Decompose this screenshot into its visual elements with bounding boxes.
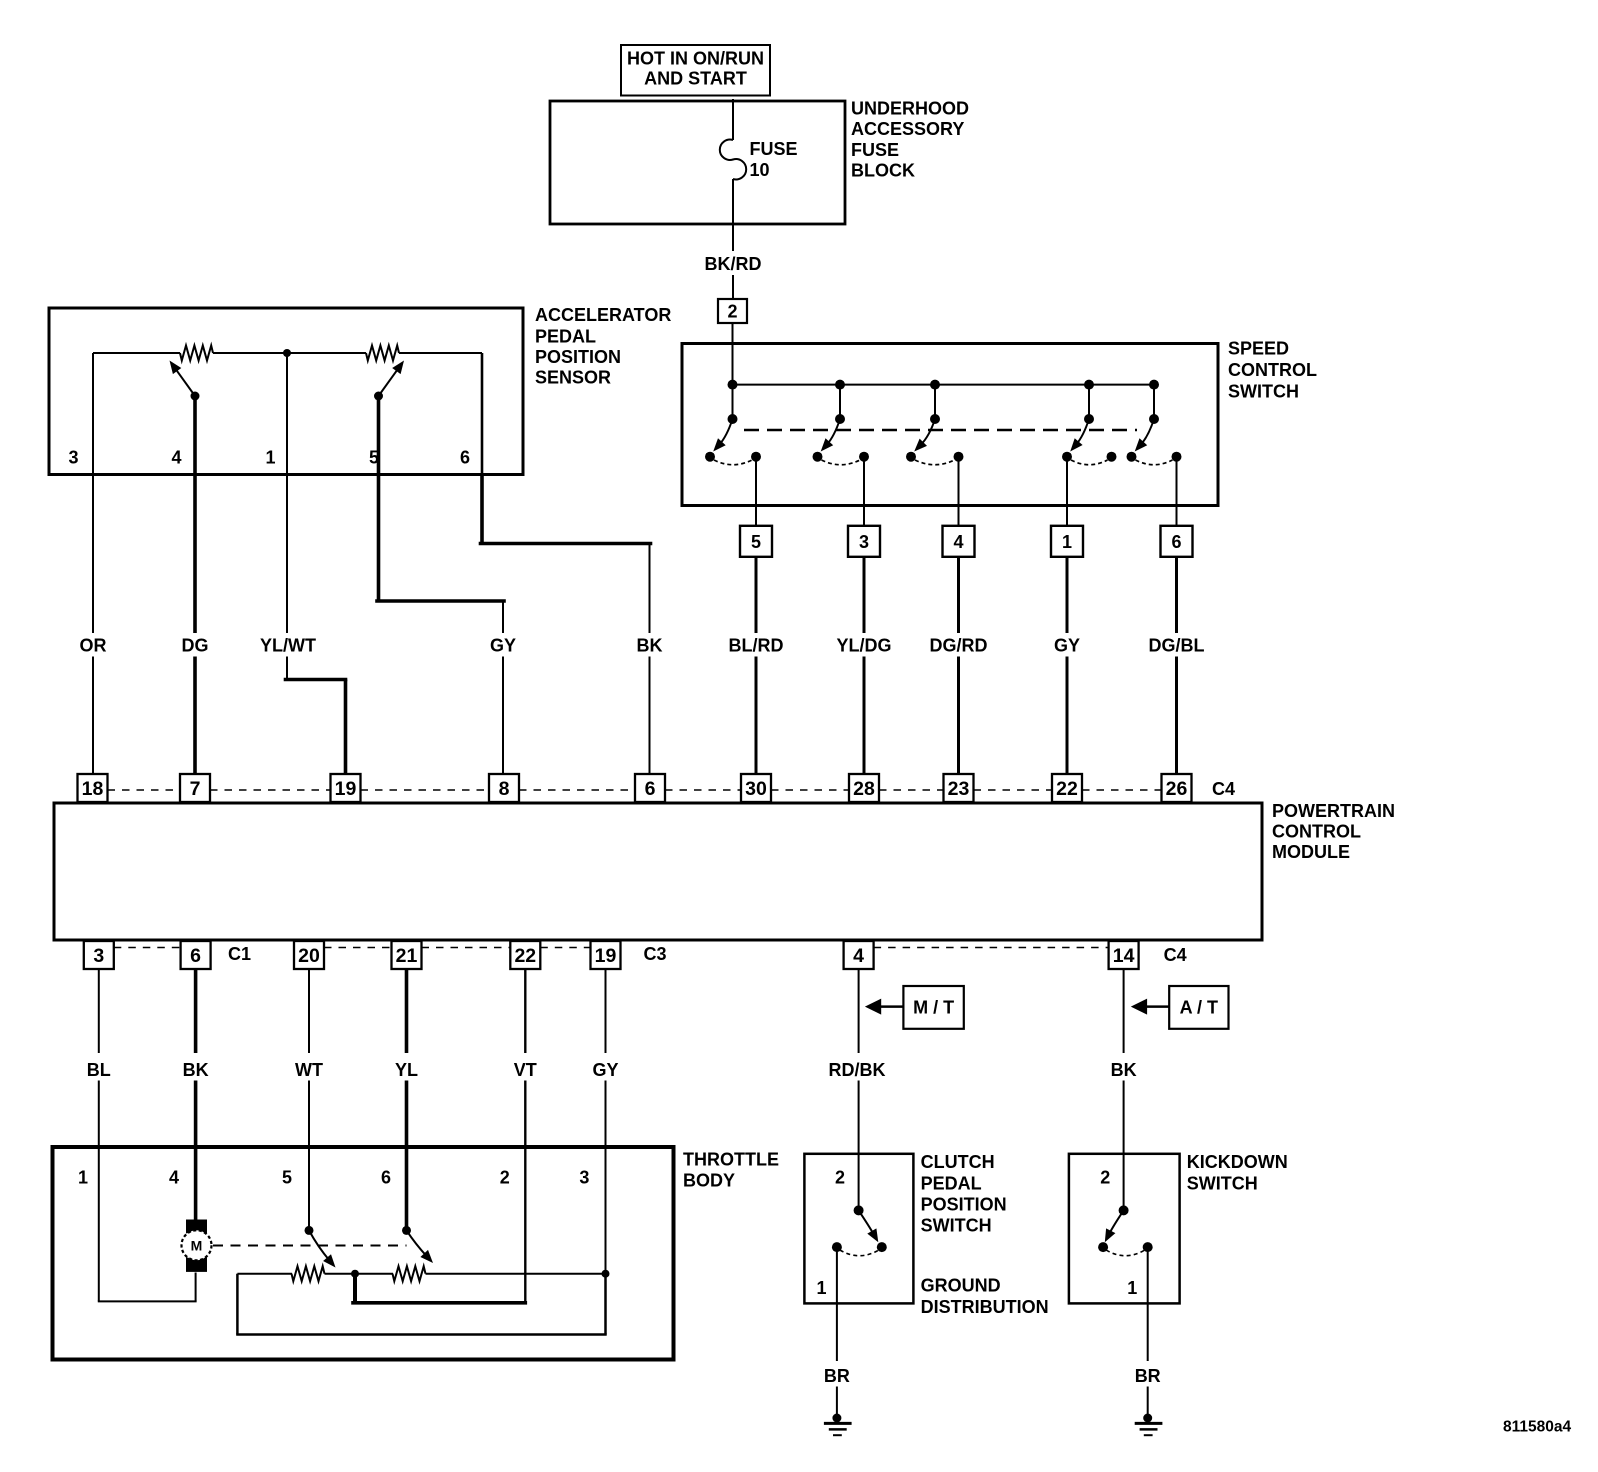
wire return loop: [236, 1274, 239, 1335]
wire sensor pin 3 internal: [92, 353, 94, 475]
connector pin 6 (PCM bottom row): [181, 941, 211, 969]
wire from contact to connector pin 6: [1176, 457, 1178, 526]
svg-text:6: 6: [381, 1168, 391, 1188]
svg-text:C3: C3: [644, 944, 667, 964]
svg-text:BR: BR: [824, 1366, 850, 1386]
svg-text:C1: C1: [228, 944, 251, 964]
switch contact set 5 of speed control switch: [1153, 385, 1155, 419]
svg-text:PEDAL: PEDAL: [535, 327, 596, 347]
svg-text:A / T: A / T: [1180, 997, 1218, 1017]
svg-text:DG/BL: DG/BL: [1149, 636, 1205, 656]
wiper arm W4 (tps2) with arrow: [405, 1147, 409, 1230]
wire GY lower to PCM pin 8: [502, 657, 504, 775]
wire resistor rail left: [237, 1273, 292, 1275]
wire GY upper segment: [1066, 557, 1069, 633]
junction bus dot 5: [1149, 380, 1159, 390]
wire RD/BK upper: [858, 969, 860, 1053]
svg-text:BODY: BODY: [683, 1171, 735, 1191]
wire BL upper: [98, 969, 100, 1053]
svg-text:YL: YL: [395, 1060, 418, 1080]
svg-text:GY: GY: [592, 1060, 618, 1080]
svg-text:5: 5: [751, 532, 761, 552]
connector pin 5 (speed control switch): [740, 526, 772, 557]
svg-text:KICKDOWN: KICKDOWN: [1187, 1152, 1288, 1172]
resistor R1 (sensor track 1): [180, 346, 213, 361]
wire GY2 lower into throttle body: [605, 1081, 607, 1274]
svg-text:C4: C4: [1212, 779, 1235, 799]
svg-text:4: 4: [853, 945, 864, 967]
svg-text:2: 2: [500, 1168, 510, 1188]
wire DG lower to PCM pin 7: [193, 657, 197, 775]
wire BL/RD lower segment to PCM pin 30: [755, 657, 758, 775]
wire VT upper: [524, 969, 526, 1053]
svg-text:OR: OR: [80, 636, 107, 656]
svg-text:UNDERHOOD: UNDERHOOD: [851, 99, 969, 119]
wire BK2 upper: [1123, 969, 1125, 1053]
box accelerator pedal position sensor: [49, 308, 523, 475]
connector pin 7 (PCM C4 top row): [180, 774, 210, 802]
wire BK upper: [194, 969, 198, 1053]
wire motor to pin1 return: [195, 1273, 197, 1302]
connector pin 22 (PCM bottom row): [510, 941, 540, 969]
svg-text:7: 7: [190, 778, 201, 800]
wire OR upper: [92, 475, 94, 634]
wire rail mid: [213, 352, 366, 354]
svg-text:1: 1: [265, 448, 275, 468]
connector pin 4 (speed control switch): [943, 526, 975, 557]
wire pin4 to motor: [194, 1147, 198, 1221]
svg-text:1: 1: [1062, 532, 1072, 552]
wire BK lower into throttle body: [194, 1081, 198, 1148]
wire BR to ground (clutch): [836, 1387, 838, 1419]
wire WT lower into throttle body: [308, 1081, 310, 1148]
svg-text:POSITION: POSITION: [535, 347, 621, 367]
junction node tap VT: [351, 1270, 359, 1278]
wire BK jog from sensor pin 6: [480, 475, 484, 544]
wiper arm W2 with arrow: [374, 392, 383, 401]
switch S2 clutch pedal position: [854, 1205, 864, 1215]
svg-text:3: 3: [859, 532, 869, 552]
svg-text:3: 3: [579, 1168, 589, 1188]
wire from contact to connector pin 3: [863, 457, 865, 526]
junction bus dot 4: [1084, 380, 1094, 390]
svg-text:4: 4: [171, 448, 181, 468]
wire YL lower into throttle body: [405, 1081, 409, 1148]
wire YL/DG lower segment to PCM pin 28: [863, 657, 866, 775]
mechanical linkage dashed line: [744, 429, 1137, 431]
wire BL lower into throttle body: [98, 1081, 100, 1148]
wire DG upper: [193, 475, 197, 634]
resistor R4 (tps track 2): [393, 1266, 426, 1281]
svg-text:VT: VT: [514, 1060, 537, 1080]
svg-text:1: 1: [78, 1168, 88, 1188]
box throttle body: [53, 1147, 674, 1360]
svg-text:M: M: [191, 1237, 203, 1253]
wire from contact to connector pin 5: [755, 457, 757, 526]
svg-text:BL: BL: [87, 1060, 111, 1080]
svg-text:6: 6: [460, 448, 470, 468]
svg-text:BK: BK: [183, 1060, 209, 1080]
box underhood accessory fuse block: [550, 101, 845, 224]
connector pin 1 (speed control switch): [1051, 526, 1083, 557]
svg-text:2: 2: [727, 302, 737, 322]
node HOT IN ON/RUN AND START (power feed box): [621, 45, 770, 96]
resistor R3 (tps track 1): [292, 1266, 325, 1281]
svg-text:SENSOR: SENSOR: [535, 367, 611, 387]
switch S3 kickdown: [1119, 1205, 1129, 1215]
flag M/T (manual transmission): [903, 986, 963, 1029]
connector pin 26 (PCM C4 top row): [1162, 774, 1192, 802]
wire sensor pin 4 internal: [193, 396, 197, 475]
wire YL/WT jog to PCM pin 19: [286, 657, 288, 680]
wire pin1 to motor return: [98, 1147, 100, 1301]
wire BK2 lower to kickdown switch: [1123, 1081, 1125, 1211]
wire from contact to connector pin 4: [958, 457, 960, 526]
svg-text:5: 5: [282, 1168, 292, 1188]
wire from clutch switch to ground: [836, 1247, 838, 1361]
svg-text:DISTRIBUTION: DISTRIBUTION: [921, 1297, 1049, 1317]
svg-text:20: 20: [298, 945, 320, 967]
svg-text:SPEED: SPEED: [1228, 339, 1289, 359]
svg-text:CONTROL: CONTROL: [1272, 822, 1361, 842]
svg-text:SWITCH: SWITCH: [1228, 382, 1299, 402]
svg-text:ACCELERATOR: ACCELERATOR: [535, 305, 671, 325]
svg-text:BK/RD: BK/RD: [705, 254, 762, 274]
svg-text:2: 2: [1100, 1168, 1110, 1188]
wire YL upper: [405, 969, 409, 1053]
svg-text:BLOCK: BLOCK: [851, 161, 915, 181]
svg-text:3: 3: [68, 448, 78, 468]
wire sensor pin 1 internal: [286, 353, 288, 475]
svg-text:WT: WT: [295, 1060, 323, 1080]
wire feed into bus: [732, 345, 734, 385]
box clutch pedal position switch: [804, 1154, 913, 1304]
wire YL/DG upper segment: [863, 557, 866, 633]
svg-text:SWITCH: SWITCH: [921, 1216, 992, 1236]
svg-text:5: 5: [369, 448, 379, 468]
junction bus dot 3: [930, 380, 940, 390]
ground G1: [832, 1414, 841, 1423]
wire OR lower to PCM pin 18: [92, 657, 94, 775]
wire pin2 to speed control switch: [732, 323, 734, 345]
svg-text:22: 22: [514, 945, 536, 967]
svg-text:23: 23: [948, 778, 970, 800]
wire BK/RD from fuse to connector pin 2: [732, 179, 734, 251]
svg-text:4: 4: [169, 1168, 179, 1188]
junction bus dot 1: [728, 380, 738, 390]
svg-text:CLUTCH: CLUTCH: [921, 1152, 995, 1172]
svg-text:19: 19: [595, 945, 617, 967]
svg-text:ACCESSORY: ACCESSORY: [851, 119, 964, 139]
wire BR to ground (kickdown): [1147, 1387, 1149, 1419]
wire DG/BL lower segment to PCM pin 26: [1175, 657, 1178, 775]
wire VT tap jog: [353, 1274, 357, 1303]
switch contact set 1 of speed control switch: [732, 385, 734, 419]
svg-text:AND START: AND START: [644, 69, 747, 89]
svg-text:3: 3: [93, 945, 104, 967]
motor M (throttle actuator): [187, 1220, 207, 1233]
svg-text:1: 1: [816, 1278, 826, 1298]
svg-text:6: 6: [645, 778, 656, 800]
svg-text:22: 22: [1056, 778, 1078, 800]
svg-text:18: 18: [82, 778, 104, 800]
wire GY lower segment to PCM pin 22: [1066, 657, 1069, 775]
svg-text:2: 2: [835, 1168, 845, 1188]
connector pin 22 (PCM C4 top row): [1052, 774, 1082, 802]
box kickdown switch: [1069, 1154, 1180, 1304]
svg-text:M / T: M / T: [913, 997, 954, 1017]
dashed connector row line C4 top: [108, 789, 181, 791]
wire DG/RD upper segment: [957, 557, 960, 633]
svg-text:YL/DG: YL/DG: [836, 636, 891, 656]
junction node pin 3: [602, 1270, 610, 1278]
connector pin 30 (PCM C4 top row): [741, 774, 771, 802]
svg-text:30: 30: [745, 778, 767, 800]
svg-text:BR: BR: [1135, 1366, 1161, 1386]
wire DG/RD lower segment to PCM pin 23: [957, 657, 960, 775]
connector pin 14 (PCM bottom row): [1109, 941, 1139, 969]
wire rail right: [399, 352, 482, 354]
svg-text:THROTTLE: THROTTLE: [683, 1150, 779, 1170]
svg-text:MODULE: MODULE: [1272, 842, 1350, 862]
switch contact set 4 of speed control switch: [1088, 385, 1090, 419]
wire BK lower to PCM pin 6: [649, 657, 651, 775]
wire RD/BK lower to clutch switch: [858, 1081, 860, 1211]
connector pin 19 (PCM C4 top row): [331, 774, 361, 802]
svg-text:PEDAL: PEDAL: [921, 1173, 982, 1193]
svg-text:C4: C4: [1164, 945, 1187, 965]
svg-text:8: 8: [499, 778, 510, 800]
wire sensor pin 6 internal: [481, 353, 484, 475]
svg-text:RD/BK: RD/BK: [829, 1060, 886, 1080]
svg-text:YL/WT: YL/WT: [260, 636, 316, 656]
wire BL/RD upper segment: [755, 557, 758, 633]
svg-text:BK: BK: [637, 636, 663, 656]
mechanical linkage dashed line (motor to tps): [213, 1245, 407, 1247]
wiper arm W1 with arrow: [191, 392, 200, 401]
svg-text:6: 6: [190, 945, 201, 967]
connector pin 4 (PCM bottom row): [844, 941, 874, 969]
wiper arm W3 (tps1) with arrow: [308, 1147, 310, 1230]
connector pin 6 (speed control switch): [1161, 526, 1193, 557]
wire DG/BL upper segment: [1175, 557, 1178, 633]
svg-text:SWITCH: SWITCH: [1187, 1173, 1258, 1193]
svg-text:28: 28: [853, 778, 875, 800]
svg-text:POWERTRAIN: POWERTRAIN: [1272, 801, 1395, 821]
svg-text:HOT IN ON/RUN: HOT IN ON/RUN: [627, 49, 764, 69]
svg-text:GY: GY: [1054, 636, 1080, 656]
svg-text:10: 10: [750, 160, 770, 180]
connector pin 8 (PCM C4 top row): [489, 774, 519, 802]
svg-text:19: 19: [335, 778, 357, 800]
svg-text:1: 1: [1127, 1278, 1137, 1298]
wire from hot feed into fuse: [732, 99, 734, 140]
switch contact set 3 of speed control switch: [934, 385, 936, 419]
connector pin 18 (PCM C4 top row): [78, 774, 108, 802]
junction node pin1 tap: [283, 349, 291, 357]
wire sensor internal top rail left: [93, 352, 180, 354]
wire rail between resistors: [325, 1273, 394, 1275]
svg-text:CONTROL: CONTROL: [1228, 360, 1317, 380]
connector pin 3 (PCM bottom row): [84, 941, 114, 969]
wire common bus inside speed control switch: [733, 384, 1155, 386]
wire from contact to connector pin 1: [1066, 457, 1068, 526]
wire sensor pin 5 internal: [377, 396, 381, 475]
box powertrain control module (PCM): [54, 803, 1262, 940]
svg-text:6: 6: [1171, 532, 1181, 552]
wire GY jog from sensor pin 5: [377, 475, 381, 602]
svg-text:21: 21: [396, 945, 418, 967]
svg-text:GY: GY: [490, 636, 516, 656]
svg-text:GROUND: GROUND: [921, 1276, 1001, 1296]
svg-text:DG/RD: DG/RD: [930, 636, 988, 656]
svg-text:14: 14: [1113, 945, 1135, 967]
wire GY2 upper: [605, 969, 607, 1053]
svg-text:811580a4: 811580a4: [1503, 1419, 1571, 1436]
connector pin 6 (PCM C4 top row): [635, 774, 665, 802]
wire from kickdown switch to ground: [1147, 1247, 1149, 1361]
connector pin 21 (PCM bottom row): [392, 941, 422, 969]
connector pin 28 (PCM C4 top row): [849, 774, 879, 802]
wire YL/WT upper: [286, 475, 288, 634]
svg-text:BK: BK: [1111, 1060, 1137, 1080]
wire VT lower into throttle body: [524, 1081, 526, 1303]
wire WT upper: [308, 969, 310, 1053]
connector pin 3 (speed control switch): [848, 526, 880, 557]
svg-text:POSITION: POSITION: [921, 1194, 1007, 1214]
connector pin 23 (PCM C4 top row): [944, 774, 974, 802]
flag A/T (automatic transmission): [1169, 986, 1228, 1029]
connector pin 2 (speed control switch feed): [718, 299, 747, 323]
switch contact set 2 of speed control switch: [839, 385, 841, 419]
svg-text:FUSE: FUSE: [750, 139, 798, 159]
resistor R2 (sensor track 2): [366, 346, 399, 361]
ground G2: [1143, 1414, 1152, 1423]
connector pin 19 (PCM bottom row): [591, 941, 621, 969]
connector pin 20 (PCM bottom row): [294, 941, 324, 969]
wire rail right to pin3 node: [426, 1273, 606, 1275]
svg-text:FUSE: FUSE: [851, 140, 899, 160]
svg-text:26: 26: [1166, 778, 1188, 800]
svg-text:DG: DG: [182, 636, 209, 656]
junction bus dot 2: [835, 380, 845, 390]
svg-text:BL/RD: BL/RD: [729, 636, 784, 656]
fuse FUSE 10: [720, 140, 746, 180]
dashed connector row line bottom: [114, 947, 181, 949]
svg-text:4: 4: [953, 532, 963, 552]
box speed control switch S1: [682, 344, 1218, 506]
